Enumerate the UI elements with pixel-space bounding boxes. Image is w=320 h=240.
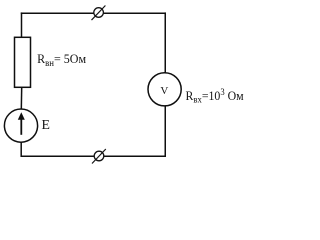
voltmeter U1 bbox=[148, 73, 181, 106]
svg-text:E: E bbox=[42, 117, 50, 132]
wire right upper bbox=[164, 12, 166, 74]
terminal X1 (top) bbox=[92, 6, 106, 21]
wire left middle bbox=[20, 87, 22, 110]
wire left lower bbox=[20, 141, 22, 157]
resistor Rвн bbox=[15, 37, 31, 87]
wire left upper bbox=[21, 12, 23, 38]
svg-text:Rвх=103 Ом: Rвх=103 Ом bbox=[186, 88, 244, 106]
wire bottom bbox=[21, 155, 167, 157]
svg-text:V: V bbox=[160, 85, 168, 97]
source E bbox=[4, 109, 37, 142]
terminal X2 (bottom) bbox=[92, 149, 106, 164]
svg-text:Rвн= 5Ом: Rвн= 5Ом bbox=[37, 51, 86, 69]
wire top bbox=[21, 12, 166, 14]
wire right lower bbox=[164, 105, 166, 157]
